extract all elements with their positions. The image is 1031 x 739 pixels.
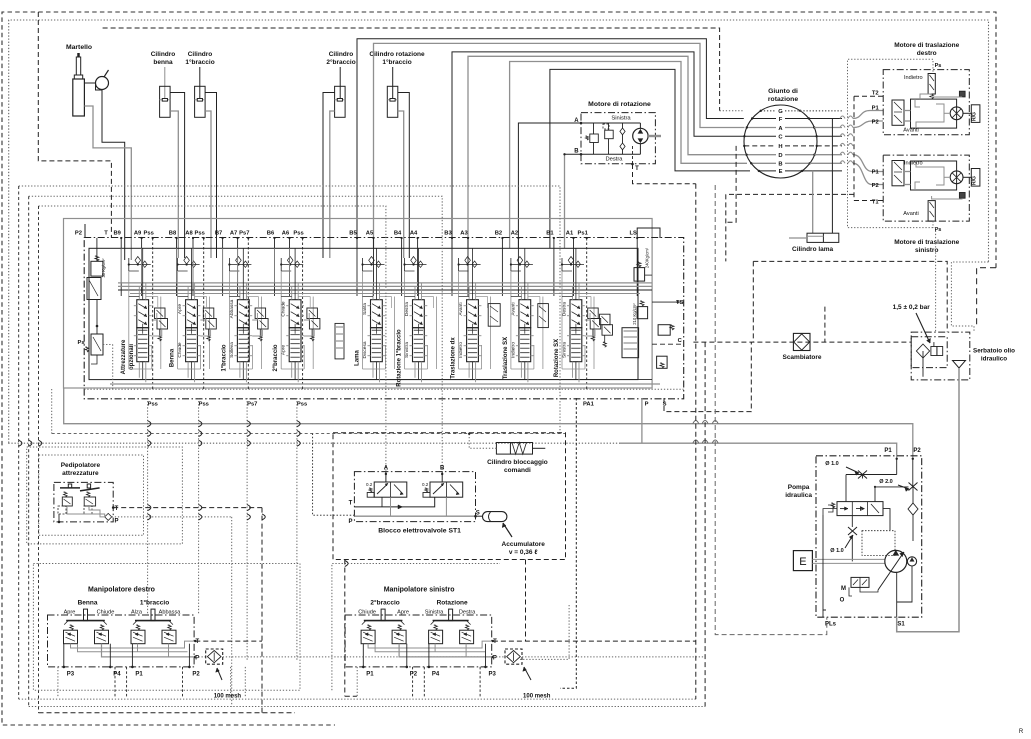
right motor counterbalance valve — [892, 100, 904, 125]
svg-text:B5: B5 — [349, 231, 357, 237]
joint line A — [747, 127, 776, 129]
svg-text:Cilindro lama: Cilindro lama — [792, 246, 834, 253]
svg-text:Blocco elettrovalvole ST1: Blocco elettrovalvole ST1 — [378, 528, 461, 535]
svg-text:Rotazione SX: Rotazione SX — [554, 339, 560, 377]
manifold section Benna — [186, 300, 198, 328]
svg-text:Pedipolatore: Pedipolatore — [61, 462, 101, 469]
dotted pilot line 1 — [19, 186, 560, 433]
joint line D — [746, 154, 776, 156]
svg-text:R: R — [1019, 729, 1024, 735]
svg-text:attrezzature: attrezzature — [62, 470, 99, 477]
travel motors dotted enclosure — [848, 59, 936, 227]
svg-text:G: G — [778, 109, 783, 115]
spring right b — [465, 625, 469, 630]
manifold section Traslazione dx — [467, 300, 479, 328]
pump internal P1 P2 verticals — [896, 459, 898, 475]
LS line — [637, 228, 660, 238]
pressure circle on hammer — [96, 77, 109, 90]
motor shaft — [648, 135, 661, 137]
pedipolatore internal lines — [67, 506, 105, 517]
joint E line down to lama — [812, 171, 814, 233]
svg-text:A3: A3 — [460, 231, 468, 237]
svg-text:A: A — [574, 118, 579, 124]
joystick right — [433, 620, 469, 622]
left motor brake valve — [928, 201, 935, 222]
svg-text:rotazione: rotazione — [768, 96, 798, 103]
spring left b — [398, 625, 402, 630]
check valves — [620, 128, 625, 135]
svg-text:1°braccio: 1°braccio — [140, 599, 169, 607]
svg-text:Ps: Ps — [935, 63, 942, 69]
drive shaft — [812, 558, 884, 560]
manifold section Attrezzature — [137, 300, 149, 328]
svg-text:Benna: Benna — [78, 600, 98, 607]
manip destro dotted enclosure — [33, 564, 300, 691]
svg-text:A5: A5 — [366, 231, 374, 237]
internal P rail — [78, 644, 188, 652]
pump dash-dot box — [816, 456, 922, 617]
svg-text:comandi: comandi — [504, 467, 531, 474]
svg-text:A: A — [384, 466, 389, 472]
svg-text:Pompa: Pompa — [788, 484, 810, 491]
throttle mid — [848, 527, 857, 535]
manifold section 2 braccio — [289, 300, 301, 328]
pedal valve right — [80, 488, 100, 491]
spring right a — [434, 625, 438, 630]
manifold vertical internal port lines — [120, 248, 122, 282]
svg-text:P1: P1 — [884, 448, 892, 454]
pedipolatore T down-line — [261, 508, 263, 713]
svg-text:T: T — [104, 231, 108, 237]
svg-text:Chiude: Chiude — [97, 610, 115, 616]
joint line F — [752, 118, 776, 120]
Manipolatore destro enclosure — [48, 615, 195, 667]
svg-text:Destra: Destra — [459, 610, 476, 616]
svg-text:T: T — [635, 166, 639, 172]
accumulator arrow — [503, 523, 512, 537]
cylinder 1 braccio — [199, 67, 201, 99]
manip pilot drop lines — [114, 667, 116, 698]
svg-text:1°braccio: 1°braccio — [221, 344, 227, 371]
spring right a — [136, 625, 140, 630]
svg-text:Scambiatore: Scambiatore — [782, 354, 821, 361]
reducing valve 1 — [64, 630, 78, 644]
svg-text:Pss: Pss — [144, 231, 154, 237]
filter 100 mesh sinistro — [505, 649, 522, 664]
bottom dotted frame 1 — [19, 698, 696, 700]
svg-text:Ps7: Ps7 — [239, 231, 249, 237]
pilot vertical 2 — [28, 196, 30, 706]
svg-text:A1: A1 — [566, 231, 574, 237]
svg-text:P3: P3 — [67, 672, 75, 678]
right motor circle — [950, 107, 963, 120]
left motor R/G gearbox — [971, 169, 980, 187]
joint F line down to lama — [831, 119, 833, 234]
long vertical dashed 705 — [704, 342, 706, 706]
right motor brake link — [959, 91, 965, 97]
wire A2 to rotation motor A — [518, 123, 581, 248]
serbatoio inner box — [911, 337, 947, 368]
svg-text:P3: P3 — [489, 672, 497, 678]
scambiatore dashed line — [693, 341, 911, 343]
svg-text:Abbassa: Abbassa — [159, 610, 182, 616]
solenoid valve A — [374, 482, 407, 497]
left travel motor box — [883, 155, 969, 221]
svg-text:Benna: Benna — [170, 348, 176, 367]
booster circle — [907, 557, 916, 566]
manifold bottom dotted line — [84, 388, 684, 390]
svg-text:1,5 ± 0,2 bar: 1,5 ± 0,2 bar — [893, 304, 931, 311]
svg-text:Ø 2.0: Ø 2.0 — [879, 479, 892, 485]
svg-text:A6: A6 — [282, 231, 290, 237]
svg-text:240Kg/cm²: 240Kg/cm² — [645, 247, 650, 268]
long vertical gray dashed 715 to pump PLs — [715, 185, 827, 635]
svg-text:Cilindro: Cilindro — [188, 51, 213, 58]
svg-text:Ps: Ps — [77, 340, 84, 346]
svg-text:Motore di traslazione: Motore di traslazione — [894, 42, 959, 49]
solenoid valve B — [430, 482, 463, 497]
manip sinistro P dotted to filter — [493, 656, 505, 658]
joint line E — [759, 170, 776, 172]
svg-text:O: O — [840, 598, 845, 604]
svg-text:2°braccio: 2°braccio — [326, 58, 355, 66]
joint line C — [744, 135, 776, 137]
right travel motor brake valve — [928, 74, 935, 95]
internal T rail — [71, 641, 196, 648]
hoses into right travel motor P1 P2 — [853, 111, 883, 119]
pedipolatore P down-line — [231, 517, 233, 707]
svg-text:30 Kg/cm²: 30 Kg/cm² — [101, 258, 106, 278]
manifold tank bus lower — [110, 379, 652, 381]
cylinder benna — [164, 67, 166, 99]
manip sinistro dotted enclosure — [332, 564, 500, 691]
svg-text:Manipolatore destro: Manipolatore destro — [88, 587, 155, 594]
dotted pilot to joint G — [720, 110, 744, 112]
Pss pilot long verticals — [147, 398, 149, 615]
outer dotted boundary frame — [9, 20, 989, 443]
manifold section Rotazione 1 braccio — [413, 300, 425, 328]
arrow to breather — [916, 313, 930, 343]
pilot dotted box — [862, 531, 895, 556]
joint line H — [744, 145, 776, 147]
svg-text:B9: B9 — [113, 231, 121, 237]
manifold relief 30kg — [91, 261, 103, 276]
internal P rail — [375, 644, 485, 652]
rotazione sx compensator — [600, 314, 611, 325]
pilot vertical 1 — [18, 186, 20, 699]
hammer line black to manifold B9 — [102, 90, 125, 261]
svg-text:E: E — [779, 169, 783, 175]
manifold outer gray box — [64, 219, 653, 389]
right motor internal lines — [904, 110, 911, 112]
manip gray drop lines — [57, 667, 59, 698]
svg-text:P2: P2 — [913, 448, 921, 454]
LS regulator valve — [837, 502, 883, 516]
svg-text:210 Kg/cm²: 210 Kg/cm² — [632, 303, 637, 325]
reducing valve 3 — [131, 630, 145, 644]
svg-text:B2: B2 — [495, 231, 502, 237]
PLs dashed out — [822, 610, 824, 617]
svg-text:A9: A9 — [134, 231, 142, 237]
hose crossing zone bumps — [840, 116, 845, 119]
svg-text:F: F — [779, 117, 783, 123]
svg-text:B6: B6 — [267, 231, 275, 237]
T drain port — [632, 146, 634, 164]
svg-text:Accumulatore: Accumulatore — [502, 541, 546, 548]
right motor body — [911, 99, 957, 128]
svg-text:Motore di traslazione: Motore di traslazione — [894, 239, 959, 246]
svg-text:B3: B3 — [444, 231, 452, 237]
svg-text:Serbatoio olio: Serbatoio olio — [973, 348, 1015, 355]
left motor circle — [950, 171, 963, 184]
svg-text:D: D — [778, 153, 782, 159]
svg-text:2°braccio: 2°braccio — [370, 599, 399, 607]
svg-text:A2: A2 — [511, 231, 518, 237]
S filter box — [657, 356, 668, 368]
pedipolatore dotted enclosure inner — [39, 455, 144, 535]
internal T rail — [368, 641, 493, 648]
sinistro P dotted onward — [522, 656, 705, 658]
rotazione line black right — [398, 93, 410, 259]
tank suction line — [897, 368, 959, 632]
svg-text:LS: LS — [629, 231, 637, 237]
svg-text:B: B — [574, 149, 579, 155]
left motor body — [911, 161, 957, 190]
svg-text:P2: P2 — [410, 672, 418, 678]
reducing valve 3 — [429, 630, 443, 644]
svg-text:T: T — [349, 501, 353, 507]
rotazione line gray right — [398, 111, 404, 258]
svg-text:P2: P2 — [872, 183, 879, 189]
svg-text:Cilindro rotazione: Cilindro rotazione — [369, 51, 425, 58]
scambiatore symbol — [793, 333, 810, 350]
1 braccio line gray — [205, 111, 211, 258]
svg-text:S: S — [663, 402, 667, 408]
cylinder rotazione 1 braccio — [392, 67, 394, 99]
svg-text:0.2: 0.2 — [422, 482, 429, 487]
svg-text:PA1: PA1 — [583, 402, 595, 408]
svg-text:Cilindro: Cilindro — [329, 51, 354, 58]
svg-text:R/G: R/G — [972, 112, 978, 121]
svg-text:Rotazione 1°braccio: Rotazione 1°braccio — [397, 329, 403, 387]
T dashed link between motors — [853, 96, 855, 200]
relief 210 — [637, 307, 648, 319]
svg-text:P: P — [348, 519, 352, 525]
svg-text:Sinistra: Sinistra — [562, 342, 568, 358]
bottom dashed frame 3 — [39, 712, 296, 714]
svg-text:Avanti: Avanti — [903, 211, 918, 217]
bloccaggio gray feed — [469, 434, 496, 449]
pump bottom lines — [860, 587, 878, 592]
svg-text:Giunto di: Giunto di — [768, 88, 798, 95]
svg-text:P2: P2 — [872, 120, 879, 126]
svg-text:Avanti: Avanti — [510, 302, 516, 315]
svg-text:Sinistra: Sinistra — [611, 116, 631, 122]
tank symbol — [953, 361, 966, 369]
svg-text:Destra: Destra — [605, 157, 623, 163]
manip destro P dotted to filter — [195, 656, 205, 658]
pump outlet verticals — [896, 572, 898, 617]
svg-text:idraulico: idraulico — [981, 356, 1007, 363]
pedipolatore dash-dot box — [54, 482, 113, 522]
relief valve right — [605, 130, 614, 139]
svg-text:Pss: Pss — [297, 402, 307, 408]
Ps dotted line to tank — [935, 228, 937, 332]
diamond check pump — [908, 503, 918, 515]
svg-text:T2: T2 — [872, 91, 879, 97]
manip destro T dashed — [195, 640, 262, 642]
reducing valve 2 — [392, 630, 406, 644]
hoses into left travel motor P1 P2 — [853, 155, 883, 172]
svg-text:Martello: Martello — [66, 44, 92, 51]
manifold inner black box — [89, 248, 638, 379]
2 braccio line gray left — [330, 111, 335, 258]
manifold LS rail — [118, 285, 652, 287]
left motor internal lines — [904, 171, 911, 173]
svg-text:Ps1: Ps1 — [578, 231, 589, 237]
wire B2 to joint B — [510, 62, 747, 249]
svg-text:Attrezzature: Attrezzature — [121, 339, 127, 374]
svg-text:idraulica: idraulica — [785, 492, 812, 499]
svg-text:Traslazione SX: Traslazione SX — [503, 337, 509, 379]
svg-text:Pss: Pss — [195, 231, 205, 237]
spring left a — [70, 625, 74, 630]
2 braccio line black left — [323, 93, 335, 259]
big dashed vertical mid — [344, 560, 346, 697]
cilindro bloccaggio comandi — [496, 443, 532, 455]
frame step right side — [977, 268, 996, 326]
gray pump line P2 long — [64, 388, 913, 459]
manifold section 1 braccio — [237, 300, 249, 328]
relief valve left — [590, 134, 599, 143]
dotted pilot line 2 — [29, 196, 443, 474]
long vertical dashed 695 — [695, 184, 697, 699]
svg-text:Manipolatore sinistro: Manipolatore sinistro — [384, 587, 455, 594]
svg-text:T: T — [115, 506, 119, 512]
filter 100 mesh destro — [206, 649, 223, 664]
benna line gray — [170, 111, 178, 258]
svg-text:B8: B8 — [169, 231, 177, 237]
svg-text:Traslazione dx: Traslazione dx — [451, 337, 457, 379]
swash control line — [883, 509, 890, 530]
svg-text:P1: P1 — [366, 672, 374, 678]
svg-text:Rotazione: Rotazione — [437, 600, 468, 607]
tank filter diamond — [916, 344, 929, 358]
svg-text:P: P — [645, 402, 649, 408]
svg-text:Pss: Pss — [199, 402, 209, 408]
traslazione dx aux valve — [488, 304, 500, 327]
wire B1 to joint E — [550, 69, 750, 248]
H dashed down — [726, 146, 736, 222]
traslazione sx aux valve — [538, 304, 549, 328]
port drops — [63, 644, 65, 667]
svg-text:Sinistra: Sinistra — [425, 610, 445, 616]
gray pump line P1 long dotted — [9, 442, 620, 444]
joystick left — [66, 620, 105, 622]
svg-text:P4: P4 — [432, 672, 440, 678]
svg-text:sinistro: sinistro — [915, 247, 939, 254]
T line to tank — [753, 261, 947, 332]
dashed drain line to joint G — [103, 28, 720, 111]
hammer breaker symbol — [77, 53, 80, 57]
TS valve — [658, 325, 670, 336]
manifold P down — [641, 398, 643, 443]
manifold section Lama — [371, 300, 383, 328]
dashed stub above scambiatore — [824, 307, 826, 343]
svg-text:P2: P2 — [75, 231, 82, 237]
svg-text:Ps7: Ps7 — [247, 402, 257, 408]
cylinder 2 braccio — [339, 67, 341, 99]
port drops — [362, 644, 364, 667]
svg-text:P1: P1 — [872, 170, 880, 176]
wire B3 to joint C — [452, 52, 744, 248]
pump arrow diagonal — [878, 552, 904, 590]
accumulatore capsule — [483, 512, 507, 522]
svg-text:B1: B1 — [546, 231, 554, 237]
svg-text:Indietro: Indietro — [510, 342, 516, 358]
svg-text:B7: B7 — [215, 231, 222, 237]
svg-text:A4: A4 — [410, 231, 418, 237]
joystick left — [364, 620, 403, 622]
pump top connections — [863, 475, 897, 479]
reducing valve 4 — [162, 630, 176, 644]
inlet valve left — [87, 278, 101, 300]
rotation motor dash-dot box — [581, 113, 655, 164]
svg-text:Motore di rotazione: Motore di rotazione — [588, 101, 651, 108]
manifold dash-dot boundary — [84, 238, 684, 399]
svg-text:v = 0,36 ℓ: v = 0,36 ℓ — [509, 549, 538, 556]
Ps dotted output — [112, 345, 114, 390]
breather valve — [931, 347, 937, 356]
E box electric motor — [793, 551, 812, 571]
svg-text:P2: P2 — [192, 672, 200, 678]
wire A1 drop from B bus — [564, 154, 566, 248]
manifold aux rail — [130, 293, 640, 295]
rotation motor circle — [633, 128, 648, 143]
reducing valve 4 — [460, 630, 474, 644]
wire B5 to joint F — [357, 39, 744, 248]
svg-text:2°braccio: 2°braccio — [273, 344, 279, 371]
svg-text:destro: destro — [917, 50, 937, 57]
svg-text:opzionali: opzionali — [129, 344, 135, 370]
manifold section Traslazione SX — [519, 300, 531, 328]
line crossing jumps — [19, 440, 22, 446]
lama mid valve — [335, 323, 344, 359]
hammer line gray to manifold A9 — [84, 106, 131, 260]
PLs line down — [823, 515, 826, 610]
svg-text:Alza: Alza — [131, 610, 143, 616]
svg-text:B4: B4 — [394, 231, 402, 237]
svg-text:Cilindro bloccaggio: Cilindro bloccaggio — [487, 459, 548, 466]
svg-text:benna: benna — [153, 59, 173, 66]
main relief 240 — [634, 268, 645, 282]
PA1 dashed down — [560, 398, 576, 688]
spring left b — [100, 625, 104, 630]
rotation joint circle — [744, 105, 817, 178]
Manipolatore sinistro enclosure — [345, 615, 492, 667]
pilot vertical 3 — [38, 206, 40, 713]
svg-text:M: M — [841, 586, 846, 592]
reducing valve 2 — [95, 630, 109, 644]
right travel motor box — [883, 70, 969, 135]
svg-text:Apre: Apre — [64, 610, 76, 616]
ST1 dash-dot box — [354, 472, 475, 522]
serbatoio dash-dot box — [911, 332, 970, 380]
manifold section Rotazione SX — [570, 300, 582, 328]
P2 port stub — [84, 224, 86, 238]
manifold P rail — [118, 282, 652, 284]
manip sinistro T dashed — [493, 640, 696, 642]
